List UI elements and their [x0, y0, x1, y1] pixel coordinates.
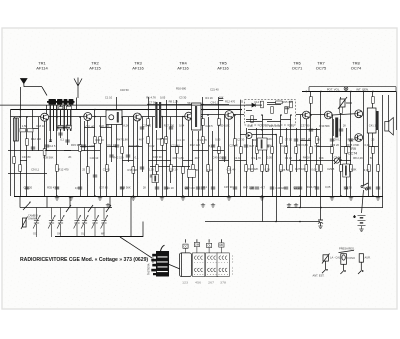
wire signal path [233, 114, 244, 116]
wire rail left [8, 150, 100, 152]
switch S1 antenna [42, 87, 47, 96]
capacitor C21 [298, 187, 302, 189]
svg-text:R12 470: R12 470 [348, 137, 359, 141]
transistor TR5 [225, 111, 234, 120]
resistor R4 [56, 165, 59, 172]
svg-text:0,05: 0,05 [325, 185, 331, 189]
svg-text:OM: OM [195, 243, 199, 247]
capacitor C19 [284, 187, 288, 189]
contact dot margin [231, 255, 234, 258]
svg-text:5K: 5K [370, 156, 373, 160]
wire tuning bottom rail [55, 236, 143, 238]
capacitor C43 [330, 139, 334, 141]
contact dot margin [231, 273, 234, 276]
wire [128, 117, 130, 162]
svg-text:2K: 2K [143, 186, 146, 190]
resistor R25 [256, 147, 259, 154]
resistor R59 [251, 116, 254, 123]
band switch lever [23, 201, 31, 210]
wire [84, 121, 86, 151]
svg-text:4K7: 4K7 [260, 186, 265, 190]
label TR9 OC74 [348, 147, 357, 155]
svg-text:R19 680: R19 680 [129, 144, 140, 148]
ground battery [359, 229, 363, 231]
svg-text:GAMMA: GAMMA [28, 218, 38, 221]
svg-text:R39 56K: R39 56K [43, 155, 54, 159]
wire [310, 91, 312, 196]
wire [26, 117, 28, 196]
wire winding tap [60, 105, 62, 131]
detector block dashed box [245, 100, 296, 125]
wire stub [262, 119, 272, 121]
wire antenna lead [24, 86, 42, 88]
transistor TR4 [185, 112, 193, 120]
wire audio rail [300, 160, 351, 162]
resistor R53 [285, 107, 288, 114]
transistor TR8 [355, 110, 363, 118]
wire [300, 115, 302, 208]
wire [170, 117, 172, 183]
capacitor C42 [294, 139, 298, 141]
capacitor C8 [126, 155, 130, 157]
wire [133, 117, 135, 196]
wire winding tap [49, 105, 51, 131]
svg-text:ANT. EST.: ANT. EST. [313, 273, 325, 277]
junction [320, 91, 322, 93]
wire stub [128, 146, 142, 148]
switch contact [66, 205, 71, 212]
wire rail left low [8, 173, 47, 175]
resistor R54 [290, 101, 293, 108]
resistor R50 [13, 157, 16, 164]
resistor R10 [132, 167, 135, 174]
svg-text:10K: 10K [319, 156, 324, 160]
svg-text:C33 20: C33 20 [24, 186, 33, 190]
ground [287, 203, 291, 207]
capacitor C11 [155, 187, 159, 189]
svg-text:AUR.: AUR. [365, 256, 371, 260]
band label box OC [183, 244, 188, 253]
wire [246, 121, 262, 123]
svg-text:C3 30: C3 30 [345, 186, 353, 190]
switch contact [88, 205, 93, 212]
svg-text:R8 2,2K: R8 2,2K [301, 137, 311, 141]
svg-text:C9 0,1: C9 0,1 [333, 138, 341, 142]
svg-text:R35 470K: R35 470K [347, 143, 359, 147]
svg-text:25: 25 [240, 100, 243, 104]
resistor R24 [251, 165, 254, 172]
transistor TR7 [324, 111, 332, 119]
resistor R3b [28, 129, 34, 132]
svg-text:R1 4,7K: R1 4,7K [252, 156, 262, 160]
wire [142, 222, 144, 238]
wire [80, 117, 82, 196]
capacitor C29 [201, 187, 205, 189]
wire [192, 131, 194, 196]
capacitor C17 [255, 187, 259, 189]
svg-text:C29 5: C29 5 [281, 144, 289, 148]
IF transformer T1 [106, 110, 122, 125]
ferrite rod antenna L1 [47, 99, 75, 105]
capacitor C24 [344, 187, 348, 189]
svg-text:INT. GEN.: INT. GEN. [356, 88, 369, 92]
capacitor C2 [45, 145, 49, 147]
junction [202, 104, 204, 106]
capacitor C41 [265, 145, 269, 147]
wire stub [20, 160, 27, 162]
svg-text:2K: 2K [343, 124, 346, 128]
junction [79, 116, 81, 118]
IF coil L3 [155, 102, 161, 128]
trimmer capacitor CV6 [92, 208, 99, 238]
label TR3 AF116 [132, 61, 144, 71]
wire [246, 128, 248, 196]
wire outer box left [308, 87, 310, 92]
svg-text:C37 80: C37 80 [301, 124, 310, 128]
resistor R52 [271, 107, 274, 114]
resistor R14 [170, 165, 173, 172]
wire [111, 125, 113, 163]
wire [50, 105, 52, 142]
junction [207, 114, 209, 116]
resistor R7 [99, 137, 102, 144]
wire switch stem [208, 239, 210, 242]
svg-text:C9 0,1: C9 0,1 [31, 168, 39, 172]
wire battery lead [362, 190, 364, 213]
svg-text:0,1: 0,1 [60, 137, 64, 141]
wire stub [267, 104, 281, 106]
resistor R43 [147, 119, 150, 126]
capacitor C16 [233, 187, 237, 189]
capacitor C3 [58, 133, 62, 135]
wire stub [157, 160, 171, 162]
svg-text:2 6 7: 2 6 7 [208, 282, 214, 285]
resistor R20 [218, 147, 221, 154]
wire [246, 104, 252, 106]
svg-text:R35 470K: R35 470K [47, 185, 59, 189]
wire [162, 117, 164, 196]
wire link to keyboard [120, 237, 152, 258]
ground [98, 196, 102, 200]
svg-text:4K7: 4K7 [139, 137, 144, 141]
wire [60, 105, 62, 138]
wire winding tap [53, 105, 55, 131]
wire [340, 97, 342, 196]
svg-text:C41 10: C41 10 [90, 156, 99, 160]
wire stub [122, 160, 133, 162]
wire bus right [287, 207, 383, 209]
wire [272, 128, 274, 196]
junction [275, 221, 277, 223]
potentiometer tone [21, 217, 28, 230]
capacitor C6 [109, 155, 113, 157]
junction [202, 109, 204, 111]
svg-text:OC74: OC74 [348, 151, 357, 155]
svg-text:3,3K: 3,3K [314, 144, 320, 148]
svg-text:C14 5: C14 5 [48, 144, 56, 148]
wire winding tap [56, 105, 58, 131]
wire stub [45, 150, 57, 152]
svg-text:R47 1,8K: R47 1,8K [173, 156, 184, 160]
junction [372, 195, 374, 197]
svg-text:R42 150: R42 150 [185, 186, 196, 190]
contact dot margin [231, 261, 234, 264]
junction [240, 109, 242, 111]
wire [388, 95, 390, 123]
trimmer capacitor CV4 [74, 208, 81, 238]
svg-text:3,3K: 3,3K [364, 168, 370, 172]
svg-text:OL: OL [207, 244, 211, 248]
junction [94, 195, 96, 197]
svg-text:0,04: 0,04 [179, 124, 185, 128]
wire stub [235, 160, 246, 162]
wire [208, 117, 210, 196]
junction [19, 116, 21, 118]
label TR1 AF114 [36, 61, 48, 71]
wire [44, 121, 46, 196]
svg-text:R8 2,2K: R8 2,2K [353, 156, 363, 160]
resistor R2 [26, 139, 29, 146]
resistor R32 [305, 165, 308, 172]
svg-text:1 2 3: 1 2 3 [182, 282, 188, 285]
resistor R34 [316, 165, 319, 172]
svg-text:C25 50: C25 50 [280, 168, 289, 172]
wire [87, 121, 89, 197]
capacitor C26 [376, 187, 380, 189]
svg-text:R4 1K: R4 1K [303, 156, 311, 160]
ground [227, 196, 231, 200]
junction [340, 159, 342, 161]
svg-text:5K: 5K [317, 138, 320, 142]
svg-text:AF116: AF116 [132, 66, 144, 71]
junction [299, 159, 301, 161]
wire signal path [193, 116, 202, 118]
svg-text:RADIORICEVITORE CGE Mod. « Cot: RADIORICEVITORE CGE Mod. « Cottage » 373… [20, 257, 148, 263]
label recorder jack [339, 250, 355, 252]
band label box OM [194, 242, 199, 253]
keyboard mechanism silhouette [151, 245, 169, 276]
band label box OL [207, 243, 212, 253]
svg-text:R12 470: R12 470 [225, 100, 236, 104]
transistor TR1 [41, 113, 49, 121]
wire [224, 115, 226, 162]
trimmer capacitor CV7 [101, 208, 108, 238]
wire [94, 110, 96, 197]
wire [130, 196, 132, 237]
capacitor C15 [222, 157, 226, 159]
contact dot margin [231, 267, 234, 270]
wire [267, 101, 276, 103]
pilot lamp [344, 87, 348, 92]
svg-text:C49 100: C49 100 [157, 137, 168, 141]
trimmer box under rod [66, 106, 71, 109]
resistor R21 [228, 167, 231, 174]
wire stub [193, 150, 208, 152]
wire signal path [332, 114, 354, 115]
small box aux2 [152, 175, 159, 183]
wire [255, 104, 262, 106]
resistor R40 [368, 165, 371, 172]
capacitor C2a [49, 140, 52, 142]
capacitor C13 [196, 187, 200, 189]
resistor R11 [147, 137, 150, 144]
svg-text:C25 50: C25 50 [142, 123, 151, 127]
wire detector rail [248, 129, 320, 131]
trimmer capacitor CV2 [48, 208, 55, 238]
svg-text:C29 5: C29 5 [205, 124, 213, 128]
wire [69, 196, 71, 208]
car antenna [21, 79, 28, 88]
svg-text:AF114: AF114 [36, 66, 48, 71]
ground C49 [318, 226, 322, 228]
wire tuning rail [20, 207, 112, 209]
capacitor C35 [164, 187, 168, 189]
wire signal path [162, 116, 185, 118]
svg-text:OM: OM [57, 233, 61, 236]
resistor R19 [207, 165, 210, 172]
capacitor C36 [140, 127, 144, 129]
junction [290, 114, 292, 116]
wire [363, 91, 365, 185]
resistor R28 [280, 165, 283, 172]
svg-text:0,05: 0,05 [215, 137, 221, 141]
capacitor C20 [294, 187, 298, 189]
resistor R60 [280, 137, 283, 144]
ground [349, 196, 353, 200]
driver transformer T3 [333, 118, 340, 138]
svg-text:R47 1,8K: R47 1,8K [117, 138, 128, 142]
svg-text:C45 30: C45 30 [153, 155, 162, 159]
wire [286, 128, 288, 170]
resistor R45 [202, 119, 205, 126]
wire [346, 128, 348, 196]
resistor R58 [310, 97, 313, 104]
svg-text:R1 4,7K: R1 4,7K [146, 96, 156, 100]
wire stub [317, 146, 332, 148]
wire signal path [296, 114, 302, 116]
wire [106, 125, 108, 197]
svg-text:AF116: AF116 [177, 66, 189, 71]
switch contact [106, 205, 111, 212]
svg-text:R4 1K: R4 1K [205, 96, 213, 100]
ground [160, 196, 164, 200]
wire [56, 105, 58, 196]
label TR7 OC75 [316, 61, 327, 71]
earphone jack [358, 254, 363, 274]
trimmer capacitor CV1 [33, 208, 40, 238]
wire stub [57, 127, 70, 129]
svg-text:25: 25 [82, 168, 85, 172]
junction [234, 114, 236, 116]
wire [368, 133, 370, 196]
capacitor C44 [349, 139, 353, 141]
svg-text:TR9: TR9 [349, 147, 356, 151]
svg-text:0,02: 0,02 [66, 124, 72, 128]
whip antenna [74, 78, 82, 99]
wire [332, 115, 334, 196]
svg-text:C49 100: C49 100 [275, 186, 286, 190]
capacitor C30 [93, 175, 97, 177]
potentiometer volume [334, 157, 341, 164]
resistor R36 [331, 147, 334, 154]
junction [372, 91, 374, 93]
switch on-off [361, 183, 368, 190]
wire [46, 196, 48, 208]
svg-text:R39 56K: R39 56K [120, 185, 131, 189]
wire stub [64, 150, 71, 152]
resistor R3a [20, 129, 26, 132]
wire [176, 100, 178, 196]
svg-text:C21 40: C21 40 [86, 124, 95, 128]
contact dot margin [231, 258, 234, 261]
svg-text:C33 20: C33 20 [330, 143, 339, 147]
wire [182, 117, 184, 196]
wire [267, 121, 281, 123]
resistor R46 [218, 119, 221, 126]
switch contact box S2 [193, 253, 205, 277]
label TR4 AF116 [177, 61, 189, 71]
ground [330, 196, 334, 200]
svg-text:OC75: OC75 [316, 66, 327, 71]
junction [310, 114, 312, 116]
wire [320, 91, 322, 207]
svg-text:0,05: 0,05 [267, 156, 273, 160]
wire signal path [92, 116, 106, 118]
wire stub [369, 146, 378, 148]
resistor R42 [377, 165, 380, 172]
junction [350, 91, 352, 93]
junction [19, 109, 21, 111]
trimmer capacitor CV3 [57, 208, 64, 238]
wire [234, 115, 236, 196]
junction [56, 195, 58, 197]
svg-text:OC74: OC74 [351, 66, 362, 71]
svg-text:C33 20: C33 20 [259, 124, 268, 128]
wire [228, 119, 230, 196]
wire [218, 97, 220, 196]
wire [67, 105, 69, 145]
resistor R1 [19, 165, 22, 172]
wire [212, 131, 214, 196]
wire [32, 110, 34, 152]
resistor R41 [372, 147, 375, 154]
wire stub [341, 146, 351, 148]
capacitor C38 [211, 145, 215, 147]
junction [56, 116, 58, 118]
resistor R3 [43, 149, 46, 156]
svg-text:C21 40: C21 40 [227, 168, 236, 172]
wire AGC rail [11, 109, 243, 111]
svg-text:0,1: 0,1 [203, 185, 207, 189]
junction [161, 116, 163, 118]
wire [181, 253, 183, 277]
svg-text:R47 1,8K: R47 1,8K [243, 185, 254, 189]
svg-text:+: + [354, 215, 356, 219]
capacitor C1 [31, 147, 35, 149]
junction [261, 114, 263, 116]
resistor R9 [121, 147, 124, 154]
wire [148, 97, 150, 196]
antenna jack [322, 254, 330, 274]
resistor R51 [261, 101, 264, 108]
svg-text:C41 10: C41 10 [369, 123, 378, 127]
resistor R8 [106, 165, 109, 172]
wire [20, 87, 22, 196]
wire stub [281, 119, 291, 121]
svg-text:PRESA REG.: PRESA REG. [339, 247, 355, 251]
wire [38, 117, 40, 151]
wire [100, 117, 102, 196]
